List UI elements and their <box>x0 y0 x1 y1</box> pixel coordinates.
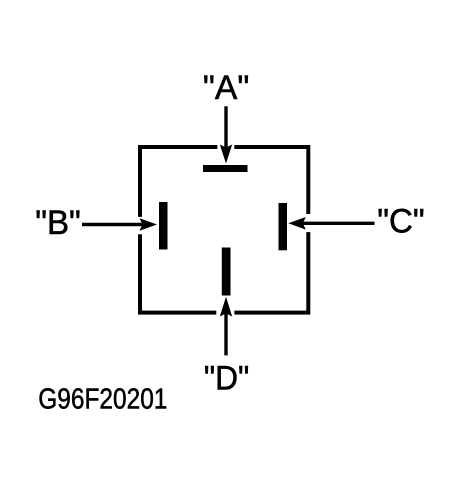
svg-text:"A": "A" <box>203 69 249 107</box>
arrow to terminal B <box>82 218 157 231</box>
terminal D contact bar <box>222 248 231 296</box>
terminal A contact bar <box>203 165 248 172</box>
arrow to terminal C <box>288 217 374 230</box>
svg-text:"D": "D" <box>204 358 249 396</box>
arrow to terminal D <box>220 297 232 356</box>
terminal C contact bar <box>279 203 288 250</box>
svg-text:"B": "B" <box>35 205 81 242</box>
arrow to terminal A <box>220 106 232 163</box>
terminal B contact bar <box>159 202 168 250</box>
relay case outline <box>137 144 311 316</box>
svg-text:"C": "C" <box>377 203 424 241</box>
svg-text:G96F20201: G96F20201 <box>38 383 167 415</box>
